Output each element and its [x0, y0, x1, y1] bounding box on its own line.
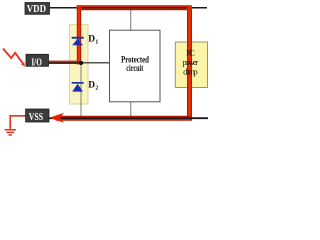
label: RC power clamp — [183, 48, 199, 77]
svg-text:clamp: clamp — [183, 67, 198, 77]
wire: VSS rail (black) — [49, 117, 208, 119]
wire: VSS to ground (red) — [10, 116, 25, 130]
node: I/O junction dot — [79, 61, 83, 65]
diode D1 — [72, 37, 84, 46]
wire: red corner joint top-right — [187, 5, 192, 10]
wire: ESD path I/O pad to junction (red) — [49, 61, 81, 64]
terminal VSS — [26, 109, 49, 123]
ESD zap symbol (red lightning bolt at I/O) — [3, 49, 25, 67]
diode well (yellow band) — [70, 25, 89, 104]
wire: ESD path down through RC clamp (red) — [187, 8, 192, 119]
terminal VDD — [25, 3, 50, 15]
svg-text:1: 1 — [95, 39, 98, 45]
wire: I/O to protected circuit (black) — [49, 62, 110, 64]
svg-text:RC: RC — [186, 48, 195, 58]
svg-text:D: D — [88, 81, 95, 91]
wire: ESD path along VSS rail (red) — [56, 116, 192, 121]
wire: VDD rail (black) — [49, 7, 207, 9]
ground symbol — [4, 130, 16, 135]
arrowhead: ESD current into VSS (red) — [49, 113, 64, 123]
wire: node below junction through D2 to VSS rail — [80, 63, 82, 118]
terminal I/O — [26, 54, 49, 68]
diode D2 — [72, 82, 84, 92]
svg-text:VSS: VSS — [29, 112, 43, 123]
svg-text:circuit: circuit — [126, 63, 143, 73]
wire: ESD path junction up through D1 to VDD rail (red) — [77, 8, 81, 65]
svg-text:I/O: I/O — [31, 58, 42, 69]
RC power clamp box U1 — [175, 42, 207, 88]
svg-text:VDD: VDD — [27, 4, 46, 15]
wire: stub from protected circuit bottom to VSS rail — [130, 102, 132, 118]
svg-text:D: D — [88, 35, 95, 45]
wire: stub from VDD rail to protected circuit top — [130, 8, 132, 30]
wire: red corner joint above D1 leg — [77, 5, 82, 10]
protected circuit block — [110, 30, 161, 102]
svg-text:2: 2 — [95, 85, 98, 91]
wire: ESD path along VDD rail (red) — [77, 5, 190, 10]
